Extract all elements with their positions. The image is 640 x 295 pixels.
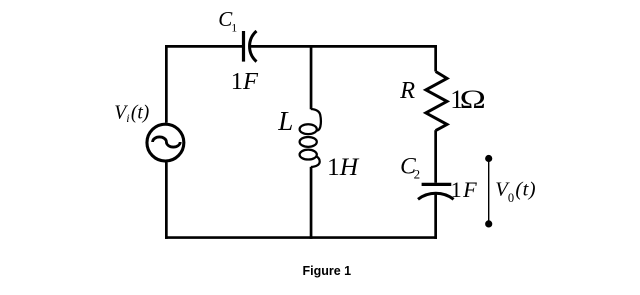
svg-text:2: 2	[414, 167, 421, 182]
svg-text:L: L	[277, 106, 293, 136]
svg-text:R: R	[399, 77, 415, 104]
svg-text:1F: 1F	[231, 68, 259, 95]
svg-text:1: 1	[231, 21, 237, 35]
svg-text:1F: 1F	[451, 177, 477, 202]
svg-text:Figure 1: Figure 1	[303, 264, 352, 278]
svg-text:Ω: Ω	[460, 85, 486, 114]
svg-text:1H: 1H	[327, 152, 360, 181]
svg-text:Vi(t): Vi(t)	[114, 102, 149, 125]
svg-text:V0(t): V0(t)	[495, 179, 536, 205]
